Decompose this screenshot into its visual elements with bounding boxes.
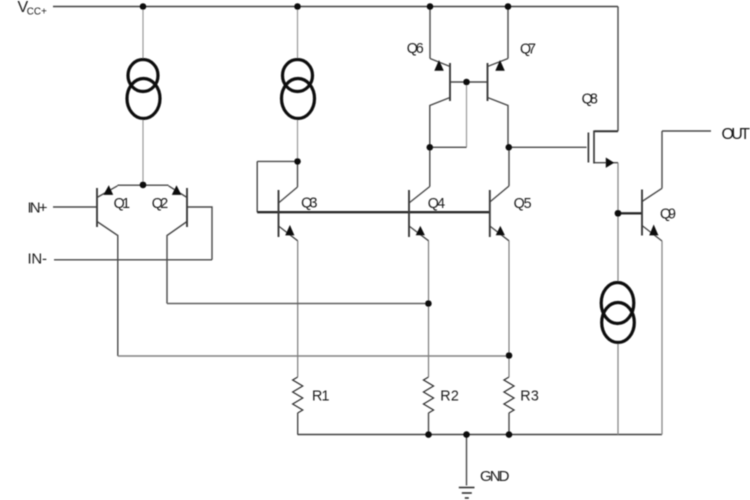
svg-text:R3: R3: [520, 389, 539, 405]
svg-text:Q6: Q6: [407, 41, 424, 57]
svg-text:R2: R2: [440, 389, 459, 405]
svg-text:Q8: Q8: [582, 92, 598, 108]
svg-text:IN+: IN+: [28, 199, 48, 216]
svg-text:Q1: Q1: [114, 196, 131, 212]
svg-text:Q5: Q5: [514, 196, 532, 212]
svg-text:IN-: IN-: [28, 250, 48, 267]
svg-text:CC+: CC+: [27, 7, 47, 18]
svg-text:Q9: Q9: [660, 206, 676, 222]
svg-text:Q2: Q2: [152, 196, 169, 212]
svg-text:R1: R1: [312, 389, 330, 405]
svg-text:OUT: OUT: [722, 126, 750, 143]
svg-text:Q3: Q3: [301, 196, 317, 212]
svg-text:GND: GND: [480, 468, 510, 485]
svg-text:Q4: Q4: [428, 196, 445, 212]
svg-text:Q7: Q7: [520, 42, 536, 58]
